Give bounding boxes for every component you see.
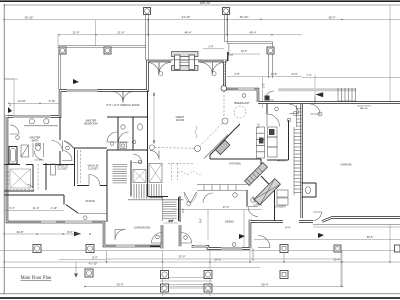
svg-text:8'-0": 8'-0" — [67, 230, 73, 234]
porch column C5 — [267, 47, 274, 54]
porch step column — [204, 284, 212, 292]
svg-text:21'-6": 21'-6" — [72, 31, 79, 35]
svg-text:36'-10": 36'-10" — [240, 15, 249, 19]
room labels — [30, 73, 372, 230]
svg-text:BEDROOM: BEDROOM — [84, 122, 97, 126]
powder by garage — [302, 182, 316, 184]
terrace column — [33, 245, 41, 253]
svg-text:3'-0": 3'-0" — [208, 44, 213, 48]
svg-text:38'-0": 38'-0" — [328, 15, 335, 19]
entry porch column — [280, 245, 288, 253]
svg-text:46'-4": 46'-4" — [184, 31, 191, 35]
stairs — [113, 164, 194, 247]
svg-text:45'-4": 45'-4" — [249, 31, 256, 35]
svg-text:BREAKFAST: BREAKFAST — [234, 101, 250, 105]
patio column C1 — [144, 8, 151, 15]
svg-text:16'-10": 16'-10" — [18, 99, 26, 103]
svg-text:OFFICE: OFFICE — [85, 199, 95, 203]
svg-text:24'-8": 24'-8" — [16, 230, 23, 234]
svg-text:21'-6": 21'-6" — [117, 31, 124, 35]
svg-text:32'-0": 32'-0" — [178, 255, 185, 259]
dining — [150, 196, 163, 198]
svg-text:8'-4": 8'-4" — [285, 226, 290, 230]
tick dots on dims — [3, 4, 342, 104]
windows (white-out wall + glazing lines) — [13, 88, 254, 250]
sheet top border thick line — [0, 0, 400, 2]
svg-text:10'-0": 10'-0" — [241, 49, 248, 53]
interior walls — [5, 83, 317, 248]
garage interior stair strip — [294, 105, 302, 195]
svg-text:9'-6": 9'-6" — [200, 218, 203, 223]
pantry shelves — [257, 127, 278, 158]
sheet bottom border thick line — [0, 297, 400, 299]
svg-text:GARAGE: GARAGE — [340, 163, 351, 167]
svg-text:14'-8": 14'-8" — [271, 72, 278, 76]
svg-text:CLOSET: CLOSET — [57, 167, 68, 171]
second dimension line — [59, 34, 302, 36]
terrace column — [85, 269, 93, 277]
svg-text:36'-10": 36'-10" — [25, 15, 34, 19]
laundry — [274, 190, 276, 221]
rear wall with posts (master wing trellis) — [58, 45, 147, 47]
laundry appliances — [277, 190, 288, 205]
svg-text:CLOSET: CLOSET — [88, 167, 99, 171]
svg-text:ABOVE: ABOVE — [360, 107, 368, 110]
svg-text:ROOM: ROOM — [176, 118, 184, 122]
svg-text:LIVINGROOM: LIVINGROOM — [134, 226, 151, 230]
fixtures master bath — [5, 119, 74, 191]
svg-text:LAUNDRY: LAUNDRY — [274, 205, 287, 209]
terrace column — [86, 245, 94, 253]
svg-text:11'-0": 11'-0" — [33, 206, 39, 210]
master french door — [112, 92, 123, 103]
svg-text:8'-0" x 8'-0" FRENCH DOOR: 8'-0" x 8'-0" FRENCH DOOR — [106, 103, 139, 107]
svg-text:7'-4": 7'-4" — [306, 73, 311, 77]
svg-text:BATH: BATH — [32, 139, 39, 143]
kitchen — [197, 163, 280, 205]
garage steps above — [278, 77, 400, 101]
kitchen north wall — [210, 158, 261, 160]
top dimension lines — [3, 1, 400, 108]
porch column C3 — [59, 47, 66, 54]
section marker A — [8, 79, 324, 239]
sheet inner top line — [4, 4, 400, 6]
svg-text:6'-10": 6'-10" — [49, 99, 56, 103]
patio column C2 — [223, 8, 230, 15]
pantry walls — [260, 159, 262, 166]
porch columns — [33, 245, 400, 293]
svg-text:17'-0": 17'-0" — [223, 205, 230, 209]
svg-text:3'-0": 3'-0" — [182, 208, 185, 213]
fireplace (rear patio) — [172, 52, 199, 71]
svg-text:11'-6": 11'-6" — [291, 72, 297, 76]
svg-text:24'-2": 24'-2" — [215, 258, 222, 262]
breakfast — [149, 91, 246, 155]
dashed opening over stairs — [168, 163, 193, 165]
svg-text:30'-0": 30'-0" — [116, 282, 123, 286]
french doors great room — [112, 60, 224, 103]
svg-text:105'-10": 105'-10" — [200, 1, 211, 5]
office — [63, 195, 65, 205]
svg-text:36'-4": 36'-4" — [367, 235, 374, 239]
hall bath fixtures — [121, 124, 143, 130]
svg-text:5'-4": 5'-4" — [9, 206, 14, 210]
entry porch column — [280, 271, 288, 279]
door arcs — [10, 91, 322, 261]
svg-text:2'-8": 2'-8" — [263, 83, 266, 88]
patio columns & beams — [58, 8, 275, 79]
garage front column — [334, 245, 341, 252]
svg-text:4'-10": 4'-10" — [51, 206, 58, 210]
hall bath rooms — [107, 116, 148, 118]
svg-text:PANTRY: PANTRY — [277, 159, 288, 163]
porch step column — [204, 271, 212, 279]
stairs core walls — [130, 161, 132, 197]
porch step column — [161, 284, 169, 292]
svg-text:8'-0": 8'-0" — [92, 255, 98, 259]
svg-text:55'-4": 55'-4" — [334, 258, 341, 262]
exterior walls (double line style) — [6, 60, 400, 249]
terrace / porch lines — [0, 225, 400, 297]
svg-text:55'-4": 55'-4" — [261, 282, 268, 286]
garage front column — [395, 245, 400, 252]
svg-text:24'-10": 24'-10" — [182, 15, 191, 19]
porch column C4 — [104, 47, 111, 54]
porch step column — [161, 271, 169, 279]
svg-text:4'-8": 4'-8" — [234, 72, 239, 76]
svg-text:41'-10": 41'-10" — [89, 262, 98, 266]
svg-text:KITCHEN: KITCHEN — [229, 162, 241, 166]
sheet inner bottom line — [0, 293, 400, 295]
master suite — [5, 164, 21, 166]
bottom dimensions — [3, 230, 400, 287]
svg-text:Main Floor Plan: Main Floor Plan — [21, 276, 52, 281]
upper dimension line — [4, 19, 400, 21]
svg-text:A: A — [9, 103, 11, 107]
hatch on breakfast west wall — [223, 61, 225, 84]
svg-text:DINING: DINING — [225, 220, 234, 224]
powder by garage fixture — [305, 187, 310, 194]
svg-text:3'-0": 3'-0" — [169, 220, 174, 223]
sheet left border line — [3, 5, 5, 294]
